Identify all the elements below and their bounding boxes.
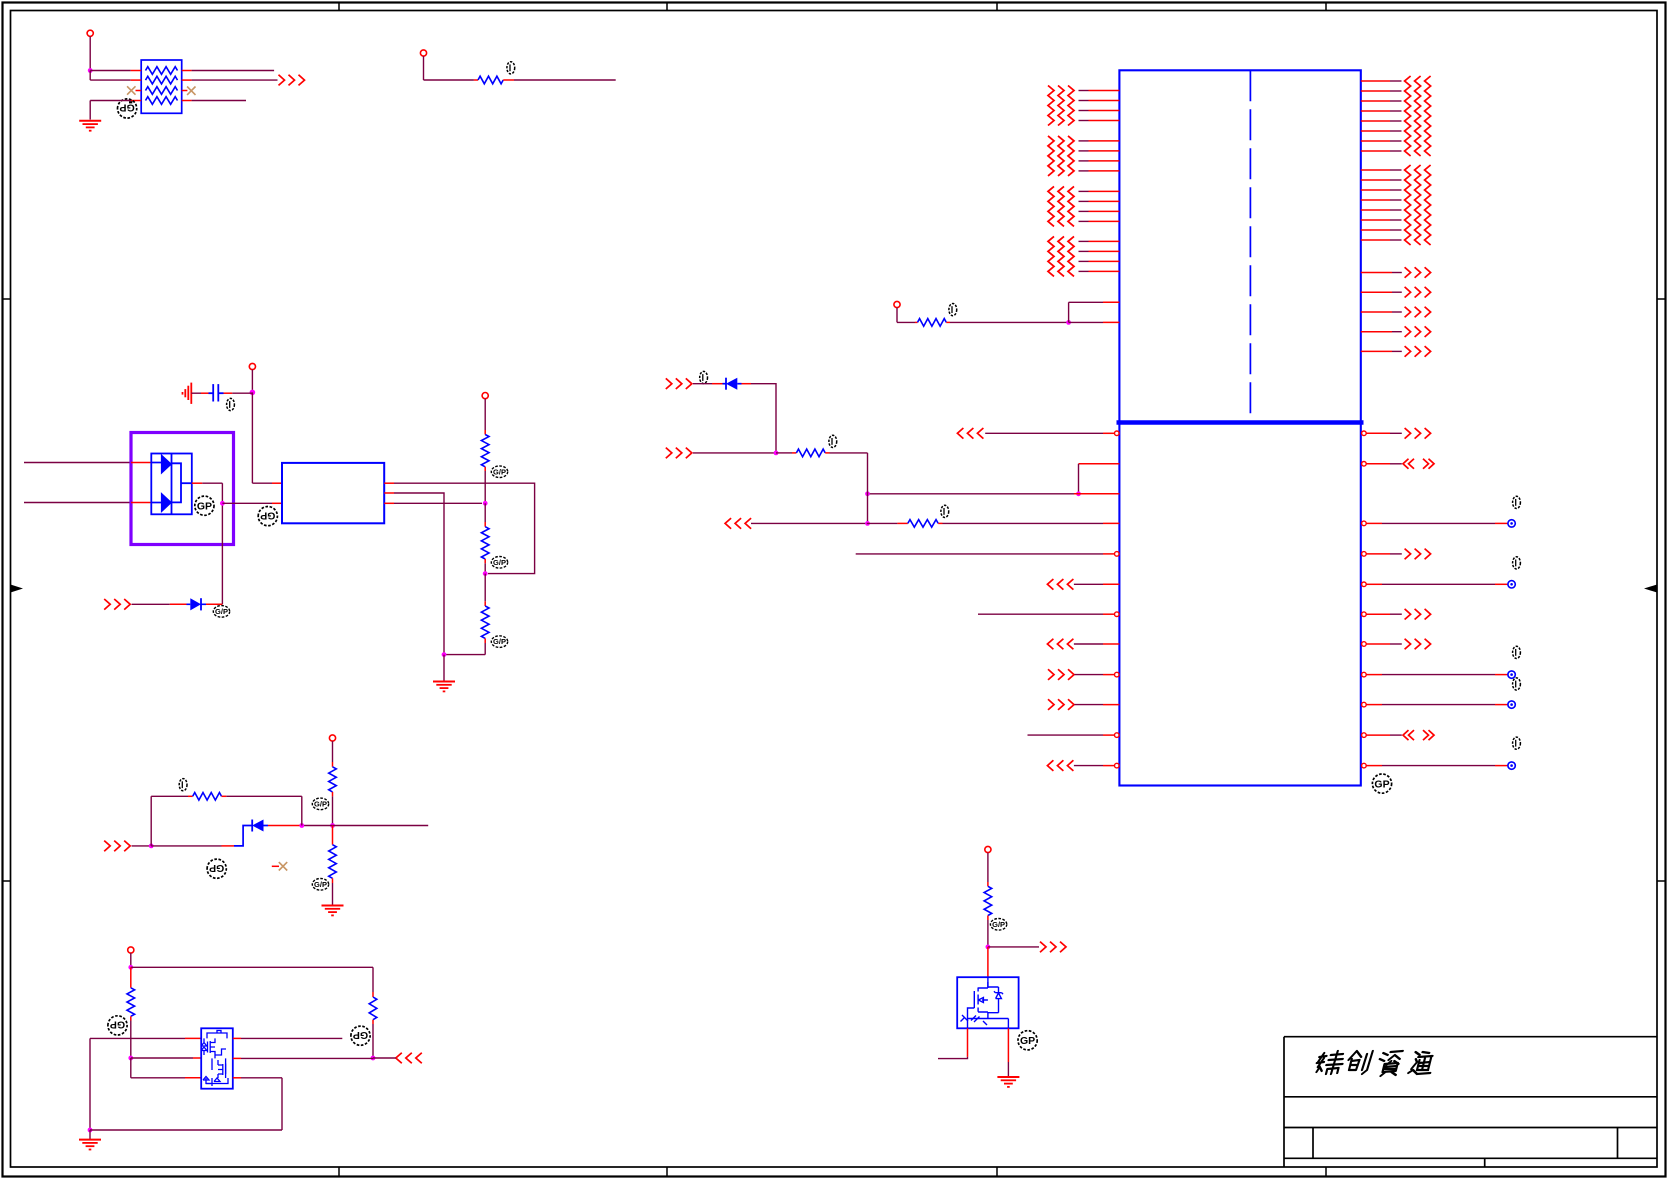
off-page connector arrow net A [279, 75, 285, 86]
pin U1.L5 wire [856, 552, 1119, 557]
designator GP circle D1 [195, 496, 214, 515]
wire [988, 946, 1039, 948]
pin U1.R1 wire and connector [1362, 431, 1402, 436]
resistor R2 [478, 76, 503, 84]
wire [130, 1021, 132, 1059]
pin stub RN1-A left [131, 70, 142, 72]
pin stub RN1-D right [182, 100, 192, 102]
pin stub R2 left [474, 79, 478, 81]
pin stub R2 right [503, 79, 514, 81]
pin stub RN1-B left [131, 79, 142, 81]
wire [281, 1078, 283, 1130]
designator R7 [312, 879, 328, 891]
wire [241, 1037, 342, 1039]
net label U1.R9 [1513, 678, 1521, 690]
off-page connector arrow net D3 [104, 599, 110, 610]
pin U1.R9 wire and connector [1362, 701, 1516, 708]
wire [221, 483, 223, 604]
pin U1.R10 wire and connector [1362, 733, 1402, 738]
wire [897, 321, 915, 323]
wire [241, 1077, 282, 1079]
svg-text:GP: GP [120, 102, 135, 114]
junction [865, 521, 870, 526]
junction [1066, 320, 1071, 325]
pin stub Q1 common right [233, 1057, 241, 1059]
junction [1076, 491, 1081, 496]
pin stub R13 left [792, 452, 796, 454]
wire [90, 79, 131, 81]
junction [220, 501, 225, 506]
title text company name [1314, 1051, 1436, 1076]
designator R2 [507, 62, 515, 74]
pin U1.L3 wire [868, 493, 1120, 495]
junction [330, 823, 335, 828]
designator GP circle RN1 [129, 101, 132, 103]
svg-text:G/P: G/P [314, 880, 327, 889]
designator R9 [108, 1016, 127, 1035]
wire [192, 70, 275, 72]
resistor R5 [481, 606, 489, 638]
frame zone tick bottom 3 [996, 1167, 998, 1177]
pin U1.R5 wire and connector [1362, 581, 1516, 588]
wire [131, 1077, 185, 1079]
diode D1-B anode lead [151, 502, 161, 504]
diode D4 [252, 820, 268, 832]
junction [299, 823, 304, 828]
pin wire and off-page arrow U1 upper right 1 [1361, 272, 1402, 274]
power pin P2 [420, 50, 426, 56]
pin U1.R3 wire and connector [1362, 520, 1516, 527]
no-connect stub D4 [272, 865, 279, 867]
pin stub R4 bottom [484, 559, 486, 563]
wire [132, 845, 152, 847]
pin stub RN1-D left [131, 100, 142, 102]
wire [484, 471, 486, 503]
designator GP circle U1 [1372, 774, 1391, 793]
pin stub D1 cathode out [192, 482, 203, 484]
pin stub R11 bottom [987, 916, 989, 921]
ground [322, 905, 344, 907]
diode D1-A anode lead [151, 462, 161, 464]
frame zone tick right 2 [1657, 880, 1666, 882]
resistor R11 [984, 886, 992, 915]
pin stub Q2 drain [1007, 1028, 1009, 1062]
frame zone tick top 4 [1325, 3, 1327, 11]
bus connector arrows U1 left group 1 [1048, 86, 1054, 126]
pin stub R10 top [372, 967, 374, 992]
wire [514, 79, 616, 81]
wire [830, 452, 868, 454]
junction [371, 1056, 376, 1061]
wire [89, 101, 91, 120]
svg-text:G/P: G/P [493, 558, 506, 567]
wire [484, 503, 486, 522]
frame zone tick bottom 4 [1325, 1167, 1327, 1177]
wire [226, 795, 301, 797]
wire [896, 308, 898, 323]
pin stub D5 anode [742, 383, 752, 385]
resistor RN1-D element [146, 97, 178, 105]
wire [89, 1038, 91, 1130]
IC U1 internal dashed divider [1249, 70, 1251, 422]
pin stub Q1 d2 right [233, 1037, 241, 1039]
wire [867, 522, 898, 524]
pin stub RN1-B right [182, 79, 192, 81]
transistor Q1-B internals [203, 1058, 228, 1086]
wire [1069, 301, 1120, 303]
resistor R4 [481, 527, 489, 559]
off-page connector arrow net D [1040, 942, 1046, 953]
pin stub R3 top [484, 430, 486, 435]
pin U1.R4 wire and connector [1362, 552, 1402, 557]
pin stub R12 left [915, 321, 918, 323]
pin U1.L4 wire [943, 522, 1120, 524]
pin stub U2 out3 [384, 502, 394, 504]
pin stub R5 bottom [484, 638, 486, 643]
designator D5 [700, 371, 708, 383]
wire [423, 56, 425, 80]
wire [1007, 1062, 1009, 1077]
designator R14 [941, 505, 949, 517]
wire [751, 522, 867, 524]
power pin P7 [985, 846, 991, 852]
wire [332, 883, 334, 905]
pin stub Q1 d1 [185, 1037, 201, 1039]
pin U1.R8 wire and connector [1362, 671, 1516, 678]
pin wire and off-page arrow U1 upper right 2 [1361, 291, 1402, 293]
pin stub Q1 s1 right [233, 1077, 241, 1079]
resistor R12 [918, 319, 947, 327]
wire [89, 36, 91, 70]
wire [192, 100, 246, 102]
diode D5 [723, 378, 742, 390]
no-connect X D4 [279, 862, 287, 870]
svg-text:G/P: G/P [314, 800, 327, 809]
resistor RN1-B element [146, 76, 178, 84]
designator R10 [351, 1026, 370, 1045]
no-connect X RN1-C right [187, 87, 195, 95]
ground [79, 120, 101, 122]
pin U1.R2 wire and connector [1362, 462, 1402, 467]
pin stub D2 anode [131, 502, 151, 504]
resistor R7 [329, 845, 337, 879]
power pin P1 [87, 30, 93, 36]
IC U1 upper section body [1119, 70, 1360, 422]
chassis ground (capacitor return) [183, 383, 192, 404]
pin stub R7 bottom [332, 878, 334, 883]
wire [130, 1058, 132, 1078]
pin stub D3 anode [170, 603, 187, 605]
junction [483, 501, 488, 506]
resistor R13 [796, 449, 825, 457]
pin U1.R11 wire and connector [1362, 762, 1516, 769]
wire [424, 79, 474, 81]
frame centre arrow right [1644, 585, 1657, 593]
wire [150, 796, 152, 846]
pin U1.R6 wire and connector [1362, 612, 1402, 617]
wire [89, 71, 91, 81]
diode D1-B triangle [161, 493, 171, 512]
off-page connector arrow net C [396, 1053, 402, 1064]
pin stub D4 anode [268, 825, 302, 827]
dual MOSFET Q1 package body [201, 1028, 233, 1088]
designator D3 [213, 606, 229, 618]
pin stub R11 top [987, 882, 989, 886]
wire [151, 845, 221, 847]
resistor R10 [369, 997, 377, 1020]
svg-text:GP: GP [260, 509, 275, 521]
wire [484, 399, 486, 430]
wire input net1 [24, 462, 131, 464]
capacitor C1 [209, 384, 224, 401]
frame zone tick bottom 1 [338, 1167, 340, 1177]
pin U1.L7 wire [978, 612, 1119, 617]
wire [232, 392, 252, 394]
resistor R6 [329, 767, 337, 792]
off-page connector arrow net F [666, 448, 672, 459]
pin U1.L10 wire with connector >>> [1048, 699, 1054, 710]
junction [128, 965, 133, 970]
bus connector arrows U1 left group 4 [1048, 236, 1054, 276]
svg-text:GP: GP [110, 1019, 125, 1031]
wire [693, 383, 712, 385]
pin stub R12 right [946, 321, 950, 323]
svg-text:GP: GP [209, 862, 224, 874]
junction [442, 652, 447, 657]
wire [484, 563, 486, 573]
wire [332, 741, 334, 762]
wire [394, 502, 482, 504]
resistor network RN1 body [141, 60, 182, 113]
resistor R14 [908, 520, 938, 528]
wire [130, 953, 132, 967]
pin stub D5 cathode [712, 383, 723, 385]
wire [302, 825, 428, 827]
wire [938, 1057, 968, 1059]
junction [250, 390, 256, 396]
wire [484, 574, 486, 602]
dual diode D1 package body [151, 454, 192, 515]
MOSFET Q2 package body [957, 977, 1018, 1028]
pin stub R7 top [332, 826, 334, 845]
pin stub D3 cathode [206, 603, 222, 605]
IC U1 section divider bar [1117, 420, 1364, 425]
ground [433, 681, 455, 683]
IC U1 lower section body [1119, 423, 1360, 786]
pin stub R5 top [484, 601, 486, 606]
pin U1.L6 wire with connector <<< [1047, 579, 1053, 590]
designator GP circle D4 [207, 859, 226, 878]
wire [394, 493, 444, 655]
wire [252, 482, 272, 484]
pin stub R3 bottom [484, 467, 486, 471]
wire [394, 483, 535, 573]
designator R13 [829, 435, 837, 447]
pin stub U2 in2 [272, 502, 282, 504]
pin stub R14 left [897, 522, 907, 524]
junction [774, 451, 779, 456]
off-page connector arrow net G [725, 518, 731, 529]
wire [372, 1024, 374, 1058]
pin stub R13 right [825, 452, 829, 454]
junction [128, 1056, 133, 1061]
bus connector arrows U1 right group 1 [1405, 76, 1411, 156]
pin U1.L9 wire with connector >>> [1048, 669, 1054, 680]
frame zone tick bottom 2 [666, 1167, 668, 1177]
junction [88, 1128, 93, 1133]
power pin P3 [249, 363, 255, 369]
svg-text:G/P: G/P [215, 607, 228, 616]
pin stub R6 bottom [332, 792, 334, 796]
net label U1.R3 [1513, 496, 1521, 508]
resistor RN1-C element [146, 87, 178, 95]
ground [89, 1130, 91, 1139]
wire [332, 796, 334, 825]
pin U1.L11 wire [1028, 733, 1120, 738]
pin stub R10 bottom [372, 1020, 374, 1024]
regulator U2 body [282, 463, 384, 523]
svg-text:G/P: G/P [992, 920, 1005, 929]
wire [950, 321, 1069, 323]
svg-text:GP: GP [1020, 1035, 1035, 1047]
wire [251, 370, 253, 393]
frame zone tick right 1 [1657, 298, 1666, 300]
wire [202, 482, 222, 484]
diode D4 leads [234, 826, 252, 846]
wire [191, 392, 201, 394]
wire [131, 1057, 193, 1059]
designator R3 [491, 466, 507, 478]
off-page connector arrow net E [666, 378, 672, 389]
net label U1.R8 [1513, 646, 1521, 658]
pin stub Q1 g1 [193, 1057, 201, 1059]
wire [444, 654, 485, 656]
pin U1.L1 wire with connector <<< [957, 428, 963, 439]
wire [867, 453, 869, 524]
frame centre arrow left [11, 585, 24, 593]
designator GP circle Q2 [1018, 1031, 1037, 1050]
wire [987, 920, 989, 947]
pin stub U2 out2 [384, 492, 394, 494]
resistor R8 [193, 793, 222, 801]
wire [222, 502, 272, 504]
dual diode internal cathode rail [171, 454, 173, 515]
bus connector arrows U1 left group 2 [1048, 136, 1054, 176]
pin stub C1 right [224, 392, 233, 394]
wire [693, 452, 776, 454]
pin U1.L12 wire with connector <<< [1047, 760, 1053, 771]
pin U1.R7 wire and connector [1362, 642, 1402, 647]
designator R4 [491, 557, 507, 569]
resistor R9 [127, 988, 135, 1017]
power pin P4 [482, 393, 488, 399]
dual diode common cathode lead [181, 482, 192, 484]
power pin P6 [128, 947, 134, 953]
wire [373, 1057, 396, 1059]
pin stub RN1-C right [182, 90, 188, 92]
pin stub RN1-C left [136, 90, 142, 92]
pin stub U2 out1 [384, 482, 394, 484]
diode D1-A triangle [161, 455, 171, 474]
wire [987, 947, 989, 977]
junction [149, 844, 154, 849]
pin U1.L8 wire with connector <<< [1047, 639, 1053, 650]
wire [1068, 302, 1070, 322]
pin wire and off-page arrow U1 upper right 3 [1361, 311, 1402, 313]
transistor Q1-A internals [201, 1031, 227, 1059]
transistor Q2 internals [961, 977, 1009, 1028]
pin stub RN1-A right [182, 70, 192, 72]
title block outline [1284, 1037, 1657, 1167]
wire [241, 1057, 373, 1059]
svg-text:GP: GP [353, 1029, 368, 1041]
pin U1.L2 bent wire [1079, 464, 1120, 494]
pin stub Q1 s2 [185, 1077, 201, 1079]
power pin P8 [894, 301, 900, 307]
junction [88, 68, 93, 73]
power pin P5 [329, 735, 335, 741]
pin stub R6 top [332, 762, 334, 767]
pin stub U2 in1 [272, 482, 282, 484]
designator R6 [312, 798, 328, 810]
wire [151, 795, 188, 797]
pin stub D4 cathode lead [222, 845, 235, 847]
wire [1069, 321, 1120, 323]
pin stub R8 left [188, 795, 193, 797]
wire [251, 392, 253, 483]
pin stub R8 right [222, 795, 227, 797]
diode D3 [187, 598, 207, 610]
resistor R3 [481, 435, 489, 467]
pin stub D1 anode [131, 462, 151, 464]
net label U1.R11 [1513, 737, 1521, 749]
wire [301, 796, 303, 825]
designator R12 [949, 304, 957, 316]
svg-text:G/P: G/P [493, 467, 506, 476]
wire [131, 966, 373, 968]
wire [90, 1037, 185, 1039]
wire [90, 100, 131, 102]
callout highlight box [131, 433, 234, 545]
designator R5 [491, 636, 507, 648]
svg-text:GP: GP [1374, 778, 1389, 790]
svg-text:GP: GP [197, 501, 212, 513]
wire [751, 384, 776, 453]
frame zone tick top 2 [666, 3, 668, 11]
designator GP oval rotated [258, 507, 277, 526]
frame zone tick top 1 [338, 3, 340, 11]
pin stub C1 left [201, 392, 209, 394]
junction [483, 571, 488, 576]
wire [987, 853, 989, 882]
off-page connector arrow net B [104, 841, 110, 852]
pin stub R9 bottom [130, 1016, 132, 1020]
frame zone tick top 3 [996, 3, 998, 11]
resistor RN1-A element [146, 67, 178, 75]
designator C1 [227, 398, 235, 410]
frame zone tick left 1 [3, 298, 11, 300]
junction [865, 491, 870, 496]
net label U1.R5 [1513, 557, 1521, 569]
wire [443, 655, 445, 681]
dual diode internal link [172, 463, 182, 502]
pin wire and off-page arrow U1 upper right 5 [1361, 350, 1402, 352]
ground [997, 1076, 1019, 1078]
bus connector arrows U1 right group 2 [1405, 165, 1411, 245]
designator R8 [179, 779, 187, 791]
no-connect X RN1-C left [127, 86, 135, 94]
frame zone tick left 2 [3, 880, 11, 882]
